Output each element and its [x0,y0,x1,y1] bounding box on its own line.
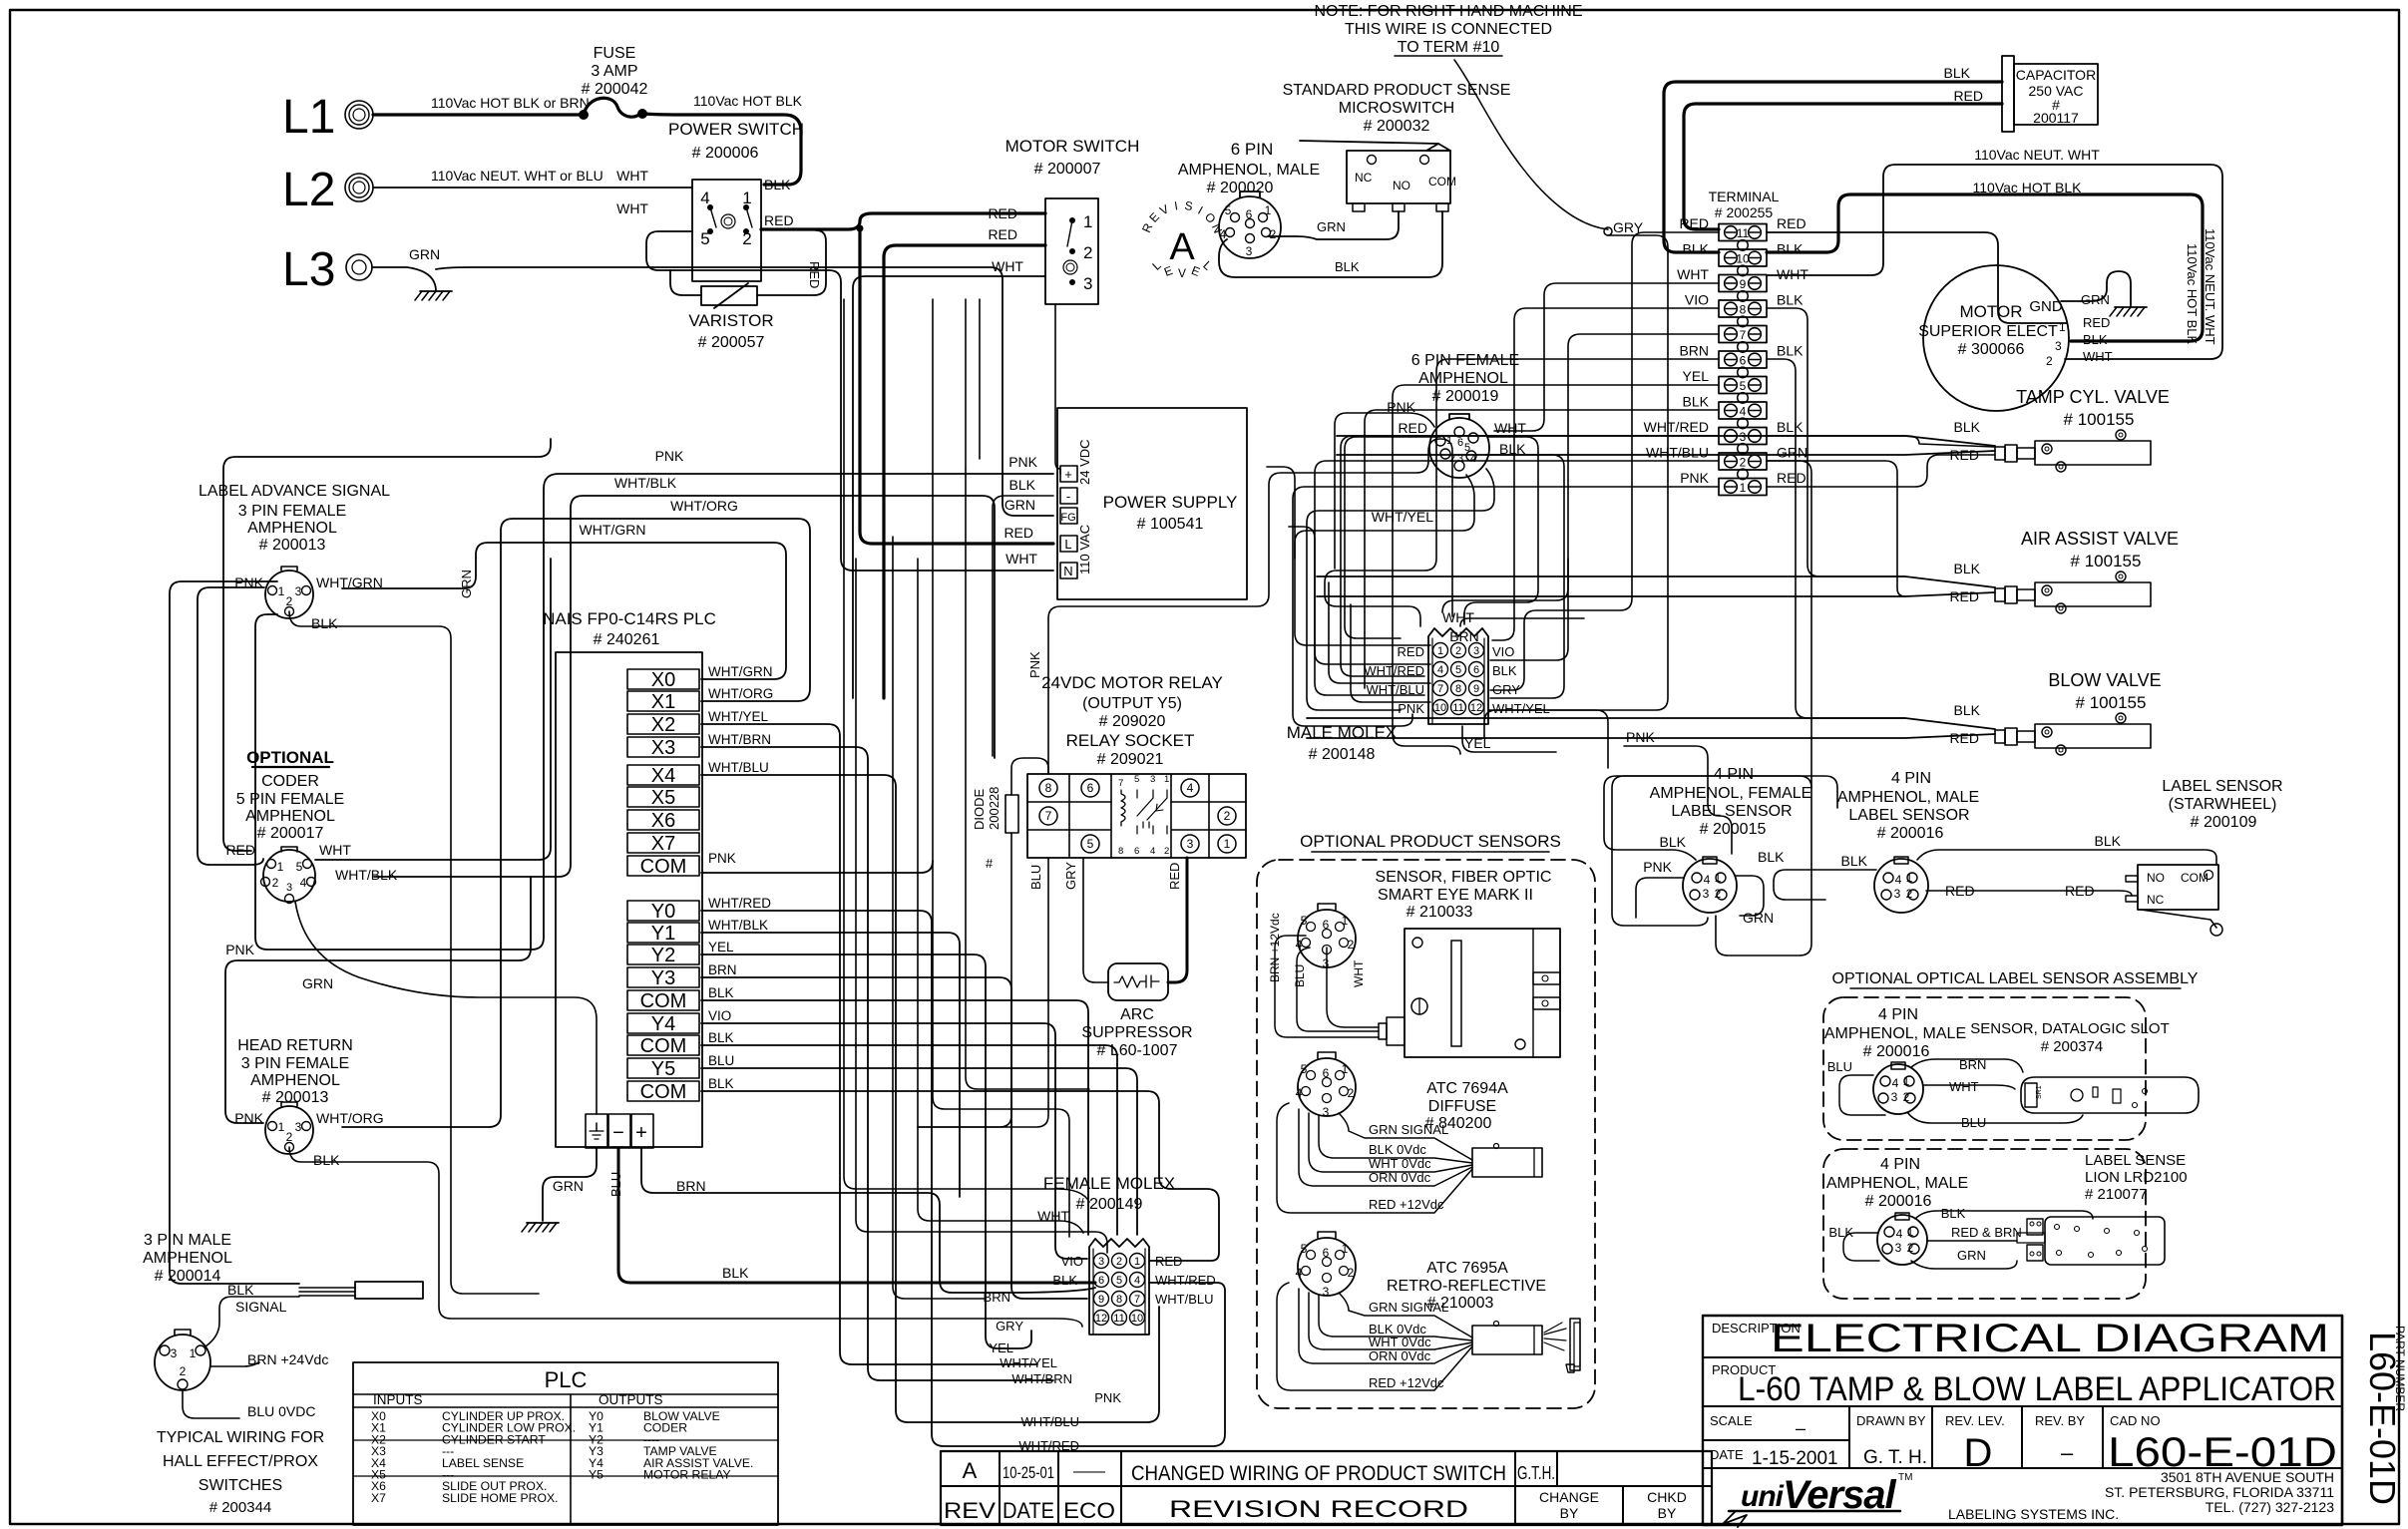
svg-text:BLK: BLK [764,177,791,192]
wire 4pin female PNK [1634,876,1696,940]
svg-text:2: 2 [1270,227,1277,241]
wire t1 RED right to tamp [1767,455,1995,487]
svg-text:PNK: PNK [1643,859,1672,875]
wire right bundle t1 PNK [1293,487,1719,726]
wire X3 WHT/BRN [701,747,1053,1380]
wire RED motor switch pin1 [1055,304,1060,474]
svg-text:200228: 200228 [987,787,1002,830]
svg-text:2: 2 [1907,1241,1914,1255]
wire X4 WHT/BLU [701,775,1159,1422]
svg-text:3: 3 [295,584,302,598]
svg-text:BLK: BLK [1944,65,1971,81]
svg-text:G. T. H.: G. T. H. [1863,1447,1927,1468]
svg-text:RETRO-REFLECTIVE: RETRO-REFLECTIVE [1387,1278,1546,1295]
svg-text:WHT/BRN: WHT/BRN [708,732,771,747]
svg-text:WHT/BLU: WHT/BLU [1646,445,1709,461]
svg-text:LABEL ADVANCE SIGNAL: LABEL ADVANCE SIGNAL [199,483,390,500]
wire right bundle t2 WHT/BLU [1315,461,1719,695]
svg-text:MOTOR SWITCH: MOTOR SWITCH [1005,137,1140,156]
svg-text:PNK: PNK [1094,1390,1121,1405]
svg-text:PNK: PNK [655,448,684,464]
svg-text:POWER SWITCH: POWER SWITCH [668,120,804,139]
svg-text:SLIDE HOME PROX.: SLIDE HOME PROX. [442,1491,558,1505]
svg-text:MOTOR RELAY: MOTOR RELAY [643,1468,731,1482]
svg-text:4: 4 [300,876,307,890]
svg-text:7: 7 [1740,328,1747,342]
svg-text:REV: REV [944,1498,996,1523]
svg-text:RED +12Vdc: RED +12Vdc [1369,1375,1444,1390]
svg-text:V: V [1178,266,1186,280]
wire 3 pin male leads [205,1297,299,1346]
wire 4pin female BLK top [1604,776,1837,860]
svg-text:RED: RED [1398,420,1427,436]
wire right bundle t8 VIO [1492,308,1719,640]
svg-text:CHANGED WIRING OF PRODUCT: CHANGED WIRING OF PRODUCT SWITCH [1131,1462,1506,1485]
svg-text:ARC: ARC [1120,1006,1154,1023]
svg-text:2: 2 [1906,887,1913,901]
svg-text:RED: RED [1949,730,1979,746]
svg-text:3: 3 [1891,1090,1898,1104]
svg-text:# 200032: # 200032 [1364,118,1430,135]
svg-text:BLK: BLK [1841,853,1868,869]
wire 6pin female RED [1345,437,1440,638]
wire rb5 [1490,235,1664,658]
svg-text:RED: RED [1679,215,1709,231]
svg-text:5: 5 [1134,774,1139,785]
svg-text:3 PIN FEMALE: 3 PIN FEMALE [238,503,346,520]
svg-text:BLK: BLK [1954,561,1981,576]
wire mid vertical e [948,319,1002,910]
svg-text:110Vac HOT BLK: 110Vac HOT BLK [2185,243,2200,344]
svg-text:OUTPUTS: OUTPUTS [599,1392,663,1407]
svg-text:3 AMP: 3 AMP [591,63,637,80]
svg-text:+: + [635,1122,647,1144]
svg-text:2: 2 [1715,887,1722,901]
svg-text:5 PIN FEMALE: 5 PIN FEMALE [236,791,344,808]
svg-text:CAD NO: CAD NO [2110,1413,2161,1428]
svg-text:TAMP CYL. VALVE: TAMP CYL. VALVE [2016,387,2170,407]
svg-text:NAIS FP0-C14RS PLC: NAIS FP0-C14RS PLC [543,609,716,628]
diffuse sensor body [1472,1148,1542,1177]
svg-text:WHT: WHT [1949,1079,1979,1094]
wire 6pin female PNK loop [1335,413,1440,710]
svg-text:BLK: BLK [1758,849,1785,865]
svg-text:COM: COM [1428,175,1456,189]
svg-text:4: 4 [1896,1227,1903,1241]
wire vertical bundle mid 3 [965,299,967,469]
svg-text:BLK: BLK [722,1265,749,1281]
wire t8 BLK right to valves [1767,308,1905,576]
svg-text:DRAWN BY: DRAWN BY [1856,1413,1926,1428]
wire BLK air assist valve [1317,576,1995,587]
svg-text:G.T.H.: G.T.H. [1517,1463,1555,1483]
wire GRN motor to ground [2061,271,2131,307]
svg-text:1: 1 [1903,1074,1910,1088]
svg-text:# 100155: # 100155 [2071,552,2142,571]
wire male molex left stub WHT/RED [1289,527,1430,664]
svg-text:5: 5 [1455,664,1461,676]
wire head-return BLK [289,1147,1082,1327]
svg-text:WHT: WHT [1777,266,1808,282]
svg-text:TYPICAL WIRING FOR: TYPICAL WIRING FOR [157,1429,324,1446]
svg-text:8: 8 [1116,1294,1122,1306]
wire mid vertical d [933,299,1069,1237]
svg-text:# 210033: # 210033 [1406,904,1473,921]
svg-text:RED: RED [1003,525,1033,541]
wire right bundle t5 YEL [1393,385,1719,754]
svg-text:AMPHENOL: AMPHENOL [245,808,335,825]
svg-text:5: 5 [296,860,303,874]
wire right bundle t3 WHT/RED [1341,436,1719,676]
svg-text:POWER SUPPLY: POWER SUPPLY [1103,493,1238,512]
svg-text:4: 4 [1892,1076,1899,1090]
wire vertical bundle mid 2 [918,559,1083,1233]
svg-text:GRN: GRN [1777,445,1807,461]
svg-text:X2: X2 [651,714,675,736]
svg-text:RED: RED [2083,315,2110,330]
svg-text:-: - [1066,489,1070,504]
svg-text:12: 12 [1470,702,1482,714]
svg-text:uni: uni [1741,1480,1785,1513]
svg-text:BLK: BLK [708,1030,734,1045]
svg-text:–: – [2061,1440,2074,1465]
svg-text:1: 1 [278,584,285,598]
svg-text:1: 1 [1906,871,1913,885]
svg-text:AMPHENOL, MALE: AMPHENOL, MALE [1178,162,1320,179]
svg-text:8: 8 [1118,846,1123,857]
optical assembly box 2 [1823,1149,2146,1299]
svg-text:# 200006: # 200006 [692,145,759,162]
svg-text:VIO: VIO [1685,292,1709,308]
connector 4 pin optical 2 [1877,1215,1927,1265]
svg-text:SENSOR, DATALOGIC SLOT: SENSOR, DATALOGIC SLOT [1970,1020,2169,1037]
svg-text:BRN: BRN [708,962,737,977]
wire label-advance BLK [289,611,539,1294]
svg-text:SR1: SR1 [2036,1085,2043,1099]
wire RED starwheel [1926,891,2132,896]
svg-text:BLK: BLK [1828,1225,1853,1240]
wire mid cross to PSU [918,471,930,495]
svg-text:# 200042: # 200042 [582,81,648,98]
title block [1703,1316,2342,1525]
svg-text:HEAD RETURN: HEAD RETURN [237,1037,353,1054]
svg-text:# 209020: # 209020 [1099,713,1166,730]
svg-text:GRN SIGNAL: GRN SIGNAL [1369,1300,1448,1315]
svg-text:BLK: BLK [1052,1273,1077,1288]
svg-text:3: 3 [286,882,292,894]
svg-text:BRN +24Vdc: BRN +24Vdc [247,1351,328,1367]
svg-text:BLK: BLK [1492,663,1517,678]
svg-text:2: 2 [2046,354,2053,368]
svg-text:5: 5 [1301,914,1308,928]
svg-text:TERMINAL: TERMINAL [1709,189,1780,204]
svg-text:LABEL SENSOR: LABEL SENSOR [1848,807,1969,824]
svg-text:GRY: GRY [1063,862,1078,890]
svg-text:PNK: PNK [708,851,736,866]
svg-text:4 PIN: 4 PIN [1891,770,1931,787]
svg-text:1-15-2001: 1-15-2001 [1752,1448,1838,1469]
svg-text:BLK: BLK [1777,343,1804,359]
svg-text:BRN: BRN [1679,343,1709,359]
svg-text:3: 3 [1457,453,1463,465]
svg-text:SIGNAL: SIGNAL [235,1299,287,1315]
svg-text:COM: COM [640,1035,687,1057]
PLC power terminals [586,1114,607,1148]
svg-text:3 PIN FEMALE: 3 PIN FEMALE [241,1055,349,1072]
svg-text:2: 2 [1164,846,1169,857]
svg-text:FUSE: FUSE [594,45,636,62]
svg-text:CHANGE: CHANGE [1539,1489,1599,1505]
wire Y5 BLU [701,1068,1137,1235]
svg-text:AMPHENOL, MALE: AMPHENOL, MALE [1826,1175,1968,1192]
wire relay 7 BLU down [918,858,1048,1127]
wire t3 BLK right [1767,436,1994,447]
svg-text:# 200015: # 200015 [1700,821,1767,838]
svg-text:200117: 200117 [2033,110,2079,126]
svg-text:7: 7 [1134,1294,1140,1306]
svg-text:NO: NO [2147,871,2165,885]
svg-text:PLC: PLC [545,1367,588,1392]
svg-text:SUPPRESSOR: SUPPRESSOR [1081,1024,1192,1041]
svg-text:2: 2 [272,876,279,890]
svg-text:BLK: BLK [1777,241,1804,257]
svg-text:4: 4 [1740,405,1747,419]
wire BLK 4pin male loop [1774,870,1876,900]
wire COM BLK 2 [701,1045,1117,1235]
wire X2 WHT/YEL [701,724,1037,1364]
svg-text:1: 1 [190,1346,197,1360]
svg-text:VIO: VIO [1061,1254,1083,1269]
svg-text:6 PIN FEMALE: 6 PIN FEMALE [1411,352,1519,369]
svg-text:VIO: VIO [708,1008,731,1023]
svg-text:2: 2 [1348,938,1355,952]
wire RED blow valve [1307,734,1995,738]
svg-text:WHT/YEL: WHT/YEL [1492,701,1550,716]
svg-text:3: 3 [1323,1285,1330,1299]
svg-text:# 200057: # 200057 [698,334,765,351]
wire coder WHT to bus [315,559,551,860]
svg-text:BLOW VALVE: BLOW VALVE [2048,670,2161,690]
svg-text:GND: GND [2029,298,2063,315]
svg-text:A: A [963,1458,978,1483]
svg-text:4: 4 [1895,873,1902,887]
svg-text:X5: X5 [651,787,675,809]
wire COM BLK 1 [701,1000,1088,1235]
power supply #100541 [1057,408,1247,599]
svg-text:6 PIN: 6 PIN [1231,140,1274,159]
wire male molex left stub PNK [1351,604,1430,702]
wire mid vertical a [843,245,845,539]
wire rb9 t7 stub [1636,333,1719,335]
svg-text:# 200013: # 200013 [259,537,326,554]
svg-text:2: 2 [1083,243,1092,262]
svg-text:5: 5 [1301,1242,1308,1256]
svg-text:COM: COM [640,856,687,878]
wire WHT to motor switch pin3 [853,276,1045,698]
svg-text:3: 3 [1150,774,1155,785]
svg-text:10: 10 [1131,1313,1143,1325]
optical assembly box 1 [1823,997,2146,1140]
svg-text:WHT/ORG: WHT/ORG [670,498,738,514]
svg-text:FEMALE MOLEX: FEMALE MOLEX [1043,1174,1175,1193]
svg-text:DIODE: DIODE [972,789,987,831]
svg-text:X7: X7 [371,1491,386,1505]
svg-text:8: 8 [1740,303,1747,317]
svg-text:4: 4 [1187,781,1194,795]
wire mid vertical c [893,537,986,1299]
svg-text:1: 1 [1342,1062,1349,1076]
wire RED tamp valve [1337,451,1995,455]
wire vertical bundle mid 1 [844,299,1089,1202]
wire rb1 [1490,334,1719,660]
svg-text:3501 8TH AVENUE SOUTH: 3501 8TH AVENUE SOUTH [2161,1469,2334,1485]
svg-text:PNK: PNK [1027,651,1042,678]
svg-text:6: 6 [1323,1066,1330,1080]
svg-text:BLK: BLK [1660,834,1687,850]
svg-text:AMPHENOL, MALE: AMPHENOL, MALE [1824,1025,1966,1042]
wire coder GRN to PLC ground [295,902,597,1114]
svg-text:RED: RED [1777,470,1806,486]
svg-text:BY: BY [1658,1505,1677,1521]
wire 4pin female inner [1624,783,1801,868]
svg-text:4: 4 [1150,846,1155,857]
svg-text:24VDC MOTOR RELAY: 24VDC MOTOR RELAY [1041,673,1223,692]
svg-text:5: 5 [1301,1062,1308,1076]
svg-text:24 VDC: 24 VDC [1077,439,1092,485]
wire t2 GRN right [1716,461,1811,956]
svg-text:RED: RED [1398,644,1424,659]
svg-text:# 209021: # 209021 [1097,751,1164,768]
universal logo [1723,1472,1912,1527]
connector din 6pin fiber optic [1298,910,1356,967]
svg-text:BLK: BLK [1683,241,1710,257]
svg-text:Y5: Y5 [651,1058,675,1080]
svg-text:LABEL SENSOR: LABEL SENSOR [2162,778,2282,795]
svg-text:WHT/RED: WHT/RED [1644,419,1709,435]
svg-text:4 PIN: 4 PIN [1714,766,1754,783]
svg-text:BLK: BLK [311,615,338,631]
svg-text:# 200017: # 200017 [257,825,324,842]
connector 4 pin optical 1 [1873,1064,1923,1114]
svg-text:WHT: WHT [1442,609,1474,625]
svg-text:# 100155: # 100155 [2064,410,2135,429]
svg-text:A: A [1169,226,1195,268]
svg-text:WHT: WHT [2083,349,2113,364]
svg-text:ORN 0Vdc: ORN 0Vdc [1369,1348,1431,1363]
svg-text:−: − [612,1122,624,1144]
svg-text:6: 6 [1134,846,1139,857]
wire arc to relay 3 [1168,858,1187,982]
svg-text:BLK 0Vdc: BLK 0Vdc [1369,1142,1426,1157]
svg-text:2: 2 [180,1364,187,1378]
svg-text:6: 6 [1740,354,1747,368]
wire 4pin female outer loop [1612,776,1811,926]
svg-text:WHT/BLK: WHT/BLK [335,867,398,883]
svg-text:4 PIN: 4 PIN [1878,1006,1918,1023]
svg-text:——: —— [1073,1463,1105,1480]
svg-text:CODER: CODER [261,773,319,790]
svg-text:7: 7 [1437,683,1443,695]
wire BLK blow valve [1307,718,1995,729]
svg-text:LION LRD2100: LION LRD2100 [2085,1169,2188,1186]
svg-text:1: 1 [1224,837,1231,851]
svg-text:WHT/BLK: WHT/BLK [614,475,677,491]
svg-text:7: 7 [1045,809,1052,823]
arc suppressor #L60-1007 [1108,963,1168,1000]
wire PNK bus to X COM [544,698,556,710]
svg-text:RELAY SOCKET: RELAY SOCKET [1066,731,1195,750]
svg-text:3: 3 [1740,430,1747,444]
svg-text:RED: RED [1953,88,1983,104]
svg-text:WHT/BRN: WHT/BRN [1011,1371,1072,1386]
svg-text:BLU: BLU [1827,1059,1852,1074]
svg-text:BLU 0VDC: BLU 0VDC [247,1403,315,1419]
svg-text:L1: L1 [282,91,335,144]
wire left loop outer [170,581,299,1284]
svg-text:1: 1 [742,189,751,207]
wire molex PNK right [1606,716,1646,830]
svg-text:WHT: WHT [1494,420,1526,436]
svg-text:# 200148: # 200148 [1309,746,1376,763]
svg-text:BLK: BLK [1941,1206,1966,1221]
svg-text:VIO: VIO [1492,644,1514,659]
svg-text:4: 4 [1296,938,1303,952]
svg-text:3: 3 [295,1120,302,1134]
svg-text:110Vac NEUT. WHT: 110Vac NEUT. WHT [2203,228,2217,345]
svg-text:GRN: GRN [409,246,440,262]
svg-text:RED: RED [1949,588,1979,604]
svg-text:6: 6 [1098,1275,1104,1287]
svg-text:#: # [986,856,994,871]
svg-text:110Vac NEUT. WHT: 110Vac NEUT. WHT [1974,147,2100,163]
svg-text:# 100541: # 100541 [1137,516,1204,533]
svg-text:1: 1 [1740,481,1747,495]
svg-text:1: 1 [1715,871,1722,885]
svg-text:SWITCHES: SWITCHES [199,1477,282,1494]
svg-text:NO: NO [1393,179,1410,192]
svg-text:3: 3 [1246,244,1253,258]
svg-text:WHT/ORG: WHT/ORG [708,686,773,701]
svg-text:3: 3 [1098,1256,1104,1268]
svg-text:WHT/YEL: WHT/YEL [1000,1355,1057,1370]
svg-text:HALL EFFECT/PROX: HALL EFFECT/PROX [163,1453,318,1470]
svg-text:3: 3 [1083,274,1092,293]
svg-text:110 VAC: 110 VAC [1077,525,1092,574]
svg-text:L-60 TAMP & BLOW LABEL APPLICA: L-60 TAMP & BLOW LABEL APPLICATOR [1738,1370,2336,1408]
svg-text:YEL: YEL [708,940,734,955]
svg-text:REV. LEV.: REV. LEV. [1945,1413,2005,1428]
svg-text:X4: X4 [651,765,675,787]
svg-text:LABEL SENSE: LABEL SENSE [2085,1152,2186,1169]
wire diode vertical [1007,756,1057,768]
svg-text:+: + [1064,467,1072,482]
svg-text:1: 1 [278,1120,285,1134]
wire Y1 WHT/BLK [701,933,960,1197]
wire RED air assist valve [1317,592,1995,596]
svg-text:GRN: GRN [1957,1248,1986,1263]
svg-text:DIFFUSE: DIFFUSE [1428,1098,1496,1115]
svg-text:5: 5 [1740,379,1747,393]
wire left loop 3 [225,878,531,1123]
svg-text:THIS WIRE IS CONNECTED: THIS WIRE IS CONNECTED [1345,21,1552,38]
svg-text:TM: TM [1898,1472,1912,1483]
wire mid vertical g [1006,529,1008,756]
svg-text:NC: NC [2147,893,2165,907]
wire 4pin female BLK right [1736,876,1764,916]
svg-text:10: 10 [1434,702,1446,714]
svg-text:5: 5 [1225,203,1232,217]
svg-text:AMPHENOL: AMPHENOL [247,520,337,537]
